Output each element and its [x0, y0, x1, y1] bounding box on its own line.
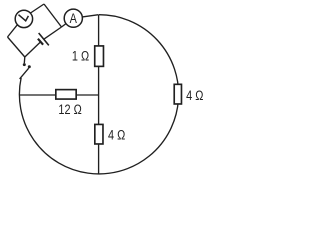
svg-text:4 Ω: 4 Ω: [108, 127, 125, 143]
svg-text:A: A: [70, 11, 78, 27]
svg-text:1 Ω: 1 Ω: [72, 48, 89, 64]
svg-text:12 Ω: 12 Ω: [58, 102, 81, 118]
svg-text:4 Ω: 4 Ω: [186, 88, 203, 104]
